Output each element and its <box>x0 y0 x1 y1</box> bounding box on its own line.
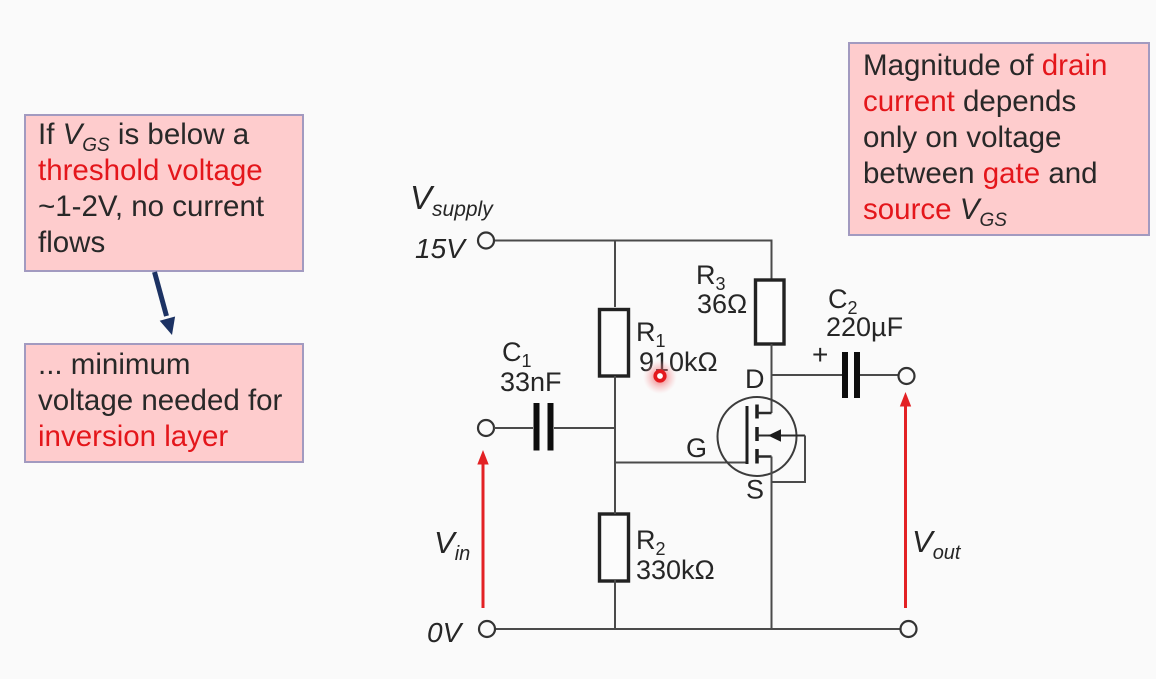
svg-text:D: D <box>745 364 765 394</box>
svg-text:Vsupply: Vsupply <box>410 179 494 221</box>
wire: input terminal to C1 <box>494 427 533 429</box>
svg-text:36Ω: 36Ω <box>697 289 747 319</box>
laser pointer dot <box>643 360 677 394</box>
annotation box: drain current note <box>848 42 1150 236</box>
MOSFET Q1 body circle <box>718 397 797 476</box>
svg-text:G: G <box>686 433 707 463</box>
arrow Vin (red) <box>477 450 488 608</box>
svg-text:Vin: Vin <box>434 525 470 565</box>
wire: source down to ground rail <box>771 457 773 630</box>
terminal: 0V left <box>479 621 495 637</box>
MOSFET gate bar <box>746 406 749 464</box>
capacitor C2 plates <box>845 352 857 398</box>
wire: ground rail <box>495 628 901 630</box>
wire: R1 bottom to gate node <box>614 376 616 463</box>
terminal: 15V supply input <box>478 233 494 249</box>
svg-text:220µF: 220µF <box>826 312 903 342</box>
svg-text:+: + <box>812 339 828 370</box>
terminal: signal input <box>478 420 494 436</box>
MOSFET body line with arrow <box>757 429 805 441</box>
wire: top supply rail from 15V terminal to right branch <box>494 240 773 242</box>
MOSFET source stub <box>757 455 772 458</box>
MOSFET channel segments <box>755 405 759 464</box>
svg-text:33nF: 33nF <box>500 367 562 397</box>
arrow Vout (red) <box>900 392 911 608</box>
resistor R2 <box>600 514 629 581</box>
terminal: 0V right <box>901 621 917 637</box>
resistor R3 <box>756 280 785 344</box>
connector arrow between annotation boxes <box>155 272 176 335</box>
wire: gate node down to R2 <box>614 463 616 514</box>
wire: R1 branch drop from supply rail <box>614 241 616 307</box>
wire: R3 bottom to MOSFET drain <box>771 344 773 413</box>
annotation box: inversion layer note <box>24 343 304 463</box>
wire: C1 to gate node junction <box>554 427 615 429</box>
capacitor C1 plates <box>537 403 551 451</box>
svg-text:15V: 15V <box>415 233 467 264</box>
wire: drain to output capacitor C2 <box>772 374 843 376</box>
wire: body-to-source loop <box>772 436 806 483</box>
svg-text:Vout: Vout <box>912 524 962 564</box>
wire: C2 to output terminal <box>860 374 898 376</box>
resistor R1 <box>600 310 629 377</box>
svg-text:R1: R1 <box>636 317 666 351</box>
svg-text:330kΩ: 330kΩ <box>636 555 715 585</box>
wire: right branch drop from supply rail to R3 <box>771 240 773 282</box>
svg-text:S: S <box>746 475 764 505</box>
svg-text:R2: R2 <box>636 525 666 559</box>
terminal: output <box>899 368 915 384</box>
svg-text:0V: 0V <box>427 617 464 648</box>
MOSFET drain stub <box>757 412 772 415</box>
svg-text:C1: C1 <box>502 337 532 371</box>
annotation box: threshold voltage note <box>24 114 304 272</box>
wire: gate node to MOSFET gate <box>615 462 747 464</box>
wire: R2 bottom to ground rail <box>614 580 616 629</box>
